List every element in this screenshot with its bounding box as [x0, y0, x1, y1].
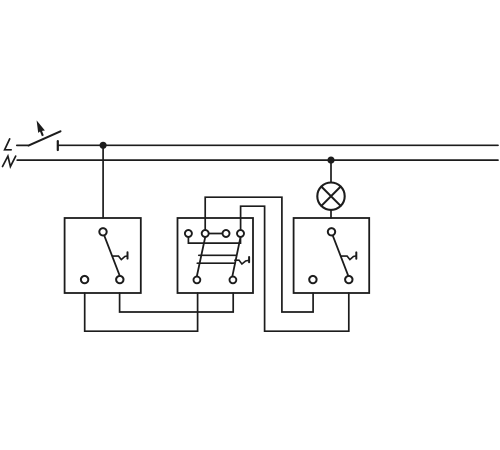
S3 terminal bottom-right — [345, 276, 352, 283]
S2 mechanical link bar 2 — [197, 262, 235, 264]
switch S2 box — [178, 218, 254, 293]
label N — [3, 156, 16, 166]
S2 terminal bottom-right — [230, 277, 237, 284]
actuation arrow — [37, 120, 45, 136]
S2 terminal 2 — [202, 230, 209, 237]
S3 terminal bottom-left — [309, 276, 316, 283]
S1 terminal top — [99, 228, 106, 235]
S2 terminal 1 — [185, 230, 192, 237]
wire N to lamp — [330, 160, 332, 182]
S1 terminal bottom-right — [116, 276, 123, 283]
S2 terminal 3 — [223, 230, 230, 237]
lamp E1 — [317, 183, 344, 210]
wire S1 bottom-right to S2 bottom-right — [120, 293, 234, 312]
S1 terminal bottom-left — [81, 276, 88, 283]
S1 blade — [104, 236, 119, 276]
wire S2 terminal2 to S3 bottom-left — [205, 197, 313, 312]
S3 terminal top — [328, 228, 335, 235]
S2 terminal 4 — [237, 230, 244, 237]
S2 actuator — [235, 257, 249, 264]
wire S1 bottom-left to S2 bottom-left — [85, 293, 198, 331]
S2 mechanical link bar 1 — [199, 254, 237, 256]
switch S3 box — [294, 218, 370, 293]
mains switch blade — [29, 131, 61, 145]
mains switch contact tick — [57, 141, 59, 150]
wire L bus — [58, 144, 498, 146]
S1 actuator — [112, 252, 127, 259]
S2 link terminal2-terminal3 — [209, 233, 223, 235]
S2 terminal bottom-left — [194, 277, 201, 284]
junction dot on L — [100, 142, 107, 149]
wire N bus — [17, 159, 498, 161]
switch S1 box — [65, 218, 141, 293]
S3 blade — [333, 236, 348, 276]
S2 blade left — [197, 237, 205, 276]
junction dot on N — [327, 157, 334, 164]
S3 actuator — [341, 252, 356, 259]
wire S2 terminal4 to S3 bottom-right — [241, 206, 349, 331]
wire L to S1 — [102, 145, 104, 218]
S2 blade right — [232, 237, 240, 276]
wire L feed — [17, 144, 29, 146]
wire lamp to S3 — [330, 210, 332, 218]
label L — [5, 139, 12, 150]
S2 outer link terminal1-terminal4 — [188, 237, 240, 243]
